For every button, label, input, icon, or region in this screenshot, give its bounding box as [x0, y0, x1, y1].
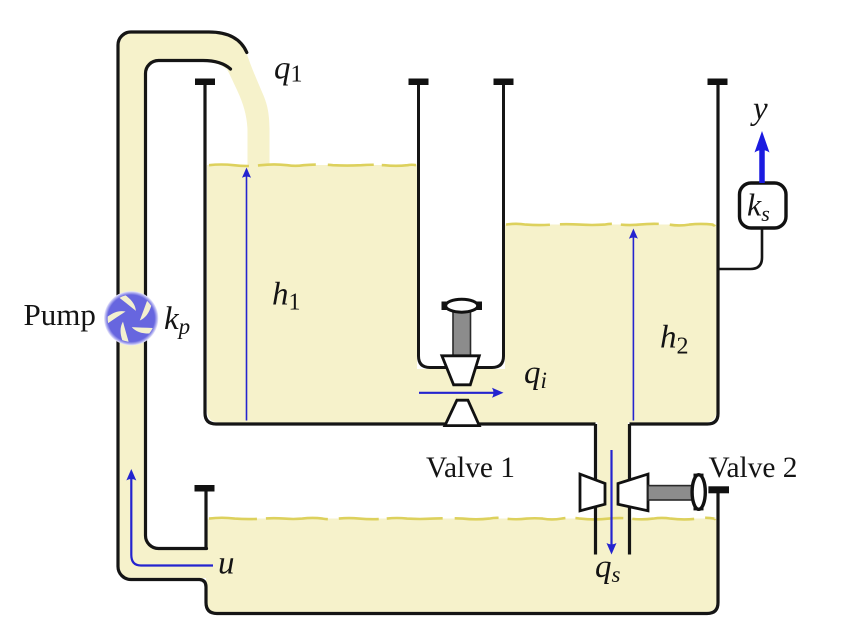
svg-text:u: u	[218, 546, 235, 582]
valve 2 right cone	[618, 474, 648, 511]
tank 1 wall cap	[195, 79, 215, 86]
qs flow arrow through valve 2	[607, 450, 617, 555]
valve 1 lower cone	[445, 400, 479, 425]
valve 2 left cone	[580, 474, 605, 511]
valve 2 stem	[648, 486, 692, 500]
liquid in pump pipe and pouring stream q1	[119, 33, 269, 578]
valve 1 housing tube	[419, 84, 504, 368]
svg-text:y: y	[750, 91, 768, 127]
tube right wall cap	[494, 79, 514, 86]
valve 2 handle	[692, 474, 705, 511]
u flow arrow into pump	[126, 469, 213, 566]
pump impeller icon	[102, 289, 161, 347]
svg-text:kp: kp	[164, 301, 190, 339]
sensor wire	[720, 228, 763, 269]
sensor ks box	[740, 183, 787, 228]
h2 level arrow	[629, 229, 638, 421]
drain pipe right wall	[628, 424, 631, 555]
tank 1 left wall and bottom (left of valve 1)	[205, 84, 446, 424]
wavy surface tank 1	[209, 164, 416, 166]
valve 1 stem	[453, 309, 471, 356]
output y arrow	[755, 131, 770, 183]
tank 2 wall cap	[708, 79, 728, 86]
svg-text:Pump: Pump	[24, 297, 96, 332]
h1 level arrow	[242, 168, 251, 421]
reservoir left wall cap	[195, 485, 215, 492]
tank 2 right wall and bottom	[630, 84, 719, 424]
qi flow arrow through valve 1	[419, 388, 504, 398]
svg-text:q1: q1	[274, 51, 303, 88]
pump pipe outer wall and lower reservoir outline	[118, 32, 718, 614]
liquid in tank 1, under-tube channel, tank 2 and drain column	[207, 165, 717, 556]
reservoir right wall cap	[708, 486, 729, 493]
pump pipe inner wall	[146, 61, 231, 549]
svg-text:Valve 1: Valve 1	[426, 451, 515, 484]
tube left wall cap	[409, 79, 429, 86]
tank 1 bottom (right of valve 1)	[478, 422, 596, 425]
svg-text:Valve 2: Valve 2	[709, 451, 798, 484]
liquid in lower reservoir	[206, 519, 717, 613]
wavy surface tank 2	[506, 224, 715, 226]
lower reservoir left wall	[204, 491, 207, 549]
drain pipe left wall	[594, 424, 597, 555]
wavy surface lower reservoir	[209, 518, 715, 520]
valve 1 handle	[442, 299, 483, 312]
valve 1 upper cone	[442, 356, 479, 385]
